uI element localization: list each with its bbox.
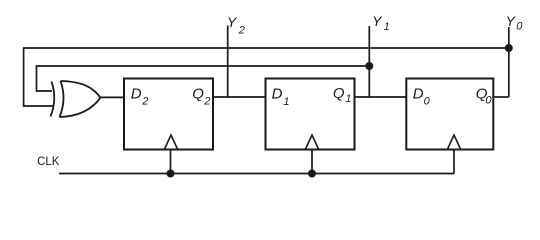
wire Y1 output drop [368,26,370,97]
wire Y0 output drop [508,27,510,97]
junction dot CLK/FF2 [308,170,316,178]
svg-text:Q: Q [192,86,204,103]
svg-text:0: 0 [424,95,431,107]
wire inner feedback (Y1/Q1 to XOR upper input) [37,66,370,91]
svg-text:0: 0 [516,21,523,33]
svg-text:Y: Y [506,13,517,29]
wire clock to FF1 [170,150,172,174]
wire clock to FF3 [453,150,455,174]
svg-text:CLK: CLK [37,156,60,168]
wire Q1 to D0 [355,96,407,98]
junction dot at Y1/inner feedback [365,62,373,70]
junction dot at Y0/outer feedback [505,44,513,52]
svg-text:D: D [131,86,142,103]
svg-text:2: 2 [238,25,245,37]
svg-text:Y: Y [227,14,238,30]
flip-flop U2 box [124,79,213,150]
wire outer feedback loop (Y0/Q0 to XOR lower input) [24,48,509,106]
svg-text:D: D [413,86,424,103]
wire Q2 to D1 [213,96,266,98]
flip-flop U4 clock triangle [447,135,460,150]
flip-flop U4 box [406,79,493,150]
svg-text:1: 1 [283,96,289,108]
wire CLK bus [59,173,454,175]
svg-text:D: D [272,86,283,103]
svg-text:1: 1 [384,21,390,33]
flip-flop U3 clock triangle [305,135,318,150]
svg-text:1: 1 [345,93,351,105]
wire clock to FF2 [311,150,313,174]
svg-text:0: 0 [485,94,492,106]
svg-text:Q: Q [333,85,345,102]
wire Y2 output drop [227,26,229,98]
wire Q0 to Y0 [493,96,509,98]
junction dot CLK/FF1 [167,170,175,178]
svg-text:2: 2 [141,95,148,107]
svg-text:2: 2 [203,96,210,108]
wire XOR output to D2 [101,96,125,98]
xor gate U1 [51,81,101,117]
flip-flop U2 clock triangle [164,135,177,150]
svg-text:Y: Y [372,13,383,29]
flip-flop U3 box [266,79,355,150]
